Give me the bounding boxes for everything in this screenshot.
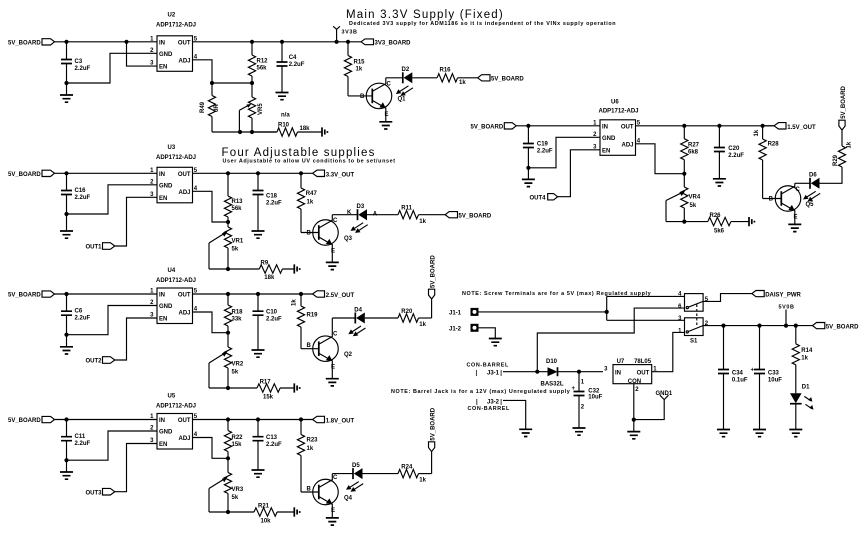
svg-text:0.1uF: 0.1uF [732,378,748,384]
svg-text:1k: 1k [459,80,466,86]
wire EN pin3 of U4 to OUT2 [115,318,157,360]
svg-text:1k: 1k [307,200,314,206]
svg-text:D3: D3 [357,204,365,210]
svg-text:R21: R21 [258,503,270,509]
svg-text:C19: C19 [537,142,549,148]
wire base Q4 [301,491,319,493]
svg-text:OUT4: OUT4 [530,196,547,202]
resistor R24 1k [398,465,432,484]
svg-text:R12: R12 [257,59,269,65]
svg-text:R47: R47 [306,191,318,197]
svg-text:IN: IN [159,40,165,46]
ground right of R9 [294,264,299,273]
svg-text:IN: IN [615,371,621,377]
svg-text:18k: 18k [264,275,275,281]
capacitor C3 2.2uF [61,42,91,83]
resistor R28 1k [754,126,779,199]
resistor R13 56k [224,173,243,222]
resistor R21 10k [228,503,294,524]
svg-text:R49: R49 [200,101,206,113]
port 5V_BOARD (vertical tag sec5) [839,85,847,130]
svg-text:2.2uF: 2.2uF [75,316,91,322]
svg-text:VR1: VR1 [232,239,244,245]
svg-text:C10: C10 [266,310,278,316]
node junction R14 [794,324,798,328]
potentiometer VR2 5k [209,333,244,388]
port OUT4 (tag) [530,194,558,202]
svg-text:1.5V_OUT: 1.5V_OUT [787,125,816,131]
capacitor C11 2.2uF [61,420,91,461]
op-amp U6 ADP1712-ADJ regulator [593,100,641,156]
svg-text:B: B [769,197,774,203]
node junction R18/VR2 [226,331,230,335]
svg-text:R11: R11 [401,206,412,212]
connector J1-2 [449,324,479,333]
node junction VR4 bottom [682,220,686,224]
svg-text:Q3: Q3 [344,236,353,242]
capacitor C10 2.2uF [253,294,283,350]
svg-text:R13: R13 [232,199,244,205]
capacitor C32 10uF polarized [572,372,603,428]
svg-text:Main 3.3V Supply (Fixed): Main 3.3V Supply (Fixed) [346,9,504,21]
ground under J1-2 [489,339,502,346]
node junction J1-1/switch riser [605,310,609,314]
svg-text:B: B [360,94,365,100]
svg-text:0R: 0R [214,104,220,112]
resistor R29 1k [833,130,853,167]
svg-text:OUT: OUT [178,40,191,46]
transistor Q2 [307,318,353,379]
svg-text:6k8: 6k8 [688,150,699,156]
capacitor C19 2.2uF [523,126,553,168]
node junction R18 top [226,292,230,296]
svg-text:5V_BOARD: 5V_BOARD [826,324,859,330]
svg-text:5V_BOARD: 5V_BOARD [8,293,41,299]
node junction VR1 bottom [226,267,230,271]
node junction C6 top [64,292,68,296]
ground under Q5 [788,224,801,231]
svg-text:B: B [307,343,312,349]
svg-text:J3-1: J3-1 [487,371,500,377]
svg-text:CON: CON [628,379,641,385]
port 5V_BOARD (input tag sec5) [471,123,517,131]
wire 5V rail sec3 [55,293,158,295]
svg-text:U2: U2 [168,13,176,19]
wire base Q5 [763,198,782,200]
svg-text:D4: D4 [354,307,362,313]
svg-text:2.2uF: 2.2uF [266,201,282,207]
node junction R12 top [250,40,254,44]
svg-text:R24: R24 [401,465,413,471]
svg-text:R18: R18 [232,310,244,316]
wire collector Q4 to D5 [332,473,353,475]
node junction C16 top [64,171,68,175]
wire ADJ pin4 of U2 [193,60,253,83]
resistor R11 1k [398,206,445,225]
svg-text:E: E [331,508,335,514]
svg-text:C34: C34 [732,371,744,377]
wire OUT rail of U6 [636,125,775,127]
wire D6 to R29 [820,167,843,183]
resistor R26 5k6 [708,213,749,234]
svg-text:1k: 1k [356,67,363,73]
ground under C18 [252,231,265,238]
svg-text:User Adjustable to allow UV co: User Adjustable to allow UV conditions t… [223,159,396,165]
node junction C3 bottom [64,81,68,85]
svg-text:D6: D6 [809,173,817,179]
node junction R27/VR4 [682,172,686,176]
svg-text:5V_BOARD: 5V_BOARD [491,77,524,83]
resistor R15 1k [344,42,365,96]
wire 5V rail sec4 [55,419,158,421]
diode D6 (LED) [803,173,820,202]
svg-text:3V3_BOARD: 3V3_BOARD [375,41,412,47]
resistor R17 15k [228,379,294,400]
port 5V_BOARD (input tag sec2) [8,170,55,178]
svg-text:C16: C16 [75,188,87,194]
svg-text:1.8V_OUT: 1.8V_OUT [326,419,355,425]
ground right of R26 [749,217,754,226]
svg-text:R14: R14 [801,348,813,354]
wire VR1 to R9 [209,268,228,270]
svg-text:5V_BOARD: 5V_BOARD [841,85,847,118]
node junction C19 top [526,124,530,128]
svg-text:10k: 10k [261,518,272,524]
svg-text:ADP1712-ADJ: ADP1712-ADJ [156,278,196,284]
svg-text:U3: U3 [168,145,176,151]
wire U7 OUT to switch pin1 [652,332,685,371]
svg-text:2.2uF: 2.2uF [289,62,305,68]
resistor R18 33k [224,294,243,333]
svg-text:GND: GND [159,183,173,189]
svg-text:5V_BOARD: 5V_BOARD [8,40,41,46]
svg-text:E: E [385,112,389,118]
svg-text:R20: R20 [401,309,413,315]
svg-text:J1-2: J1-2 [449,326,462,332]
wire J3-1 to D10 [503,371,548,373]
svg-text:U7: U7 [617,359,625,365]
svg-text:2.2uF: 2.2uF [75,66,91,72]
node junction R13/VR1 [226,220,230,224]
svg-text:3V3B: 3V3B [342,29,358,35]
wire GND pin2 of U3 [68,185,157,214]
node junction 3.3V_OUT [299,171,303,175]
port 5V_BOARD (vertical tag sec4) [429,407,437,473]
svg-text:VR3: VR3 [232,487,244,493]
wire collector Q2 to D4 [332,317,355,319]
wire base Q2 [301,348,319,350]
node junction C32 top [577,370,581,374]
svg-text:OUT: OUT [621,124,634,130]
svg-text:OUT1: OUT1 [86,245,103,251]
svg-text:3.3V_OUT: 3.3V_OUT [326,172,355,178]
port 3V3_BOARD (output tag) [361,39,411,47]
wire EN pin3 of U3 to OUT1 [115,197,157,246]
svg-text:D10: D10 [546,359,558,365]
svg-text:B: B [307,487,312,493]
svg-text:56k: 56k [232,206,243,212]
ground under Q2 [326,379,339,386]
ground under C34 [717,430,730,437]
potentiometer VR1 5k [209,222,244,269]
diode D4 (LED) [348,307,365,336]
capacitor C33 10uF polarized [751,326,783,430]
capacitor C34 0.1uF [718,326,748,430]
node junction R15 top [346,40,350,44]
svg-text:2.2uF: 2.2uF [728,153,744,159]
resistor R23 1k [297,420,318,493]
wire ADJ pin4 of U4 [193,312,229,333]
svg-text:C3: C3 [75,59,83,65]
ground under C4 [276,93,289,100]
svg-text:CON-BARREL: CON-BARREL [468,406,511,412]
svg-text:R26: R26 [710,213,722,219]
svg-text:1k: 1k [754,129,760,136]
node junction C18 top [256,171,260,175]
connector label CON-BARREL J3-2 [468,399,511,412]
svg-text:U5: U5 [168,394,176,400]
diode D5 (LED) [346,463,363,492]
svg-text:VR5: VR5 [258,103,264,115]
node junction C3 [64,40,68,44]
ground right of R10 [322,127,327,136]
svg-text:Four Adjustable supplies: Four Adjustable supplies [222,147,376,159]
svg-text:R23: R23 [307,438,319,444]
svg-text:2.2uF: 2.2uF [266,317,282,323]
svg-text:ADP1712-ADJ: ADP1712-ADJ [156,404,196,410]
svg-text:GND: GND [602,136,616,142]
svg-text:GND: GND [159,430,173,436]
svg-text:OUT2: OUT2 [86,359,103,365]
svg-text:5V_BOARD: 5V_BOARD [471,124,504,130]
svg-text:C33: C33 [768,371,780,377]
svg-text:R9: R9 [261,260,269,266]
svg-text:R29: R29 [833,154,839,166]
node junction 2.5V_OUT [299,292,303,296]
svg-text:DAISY_PWR: DAISY_PWR [765,292,801,298]
svg-text:5V_BOARD: 5V_BOARD [431,407,437,440]
wire D3 to R11 [367,214,398,216]
svg-text:EN: EN [159,317,167,323]
svg-text:C: C [333,218,338,224]
node junction C34 [721,324,725,328]
svg-text:1k: 1k [419,322,426,328]
node junction VR5 bottom [250,130,254,134]
ground right of R21 [294,507,299,516]
svg-text:n/a: n/a [281,113,290,119]
diode D3 (LED) [351,204,378,233]
connector J1-1 [449,308,479,317]
wire collector Q3 to D3 [332,214,357,216]
wire pin5 to DAISY_PWR [703,294,752,302]
wire GND pin2 of U4 [68,306,157,335]
wire 5V rail sec5 [516,125,600,127]
svg-text:R16: R16 [440,67,452,73]
resistor R22 15k [224,420,243,459]
dashed link between switch sections [696,305,698,328]
port 5V_BOARD (input tag) [8,39,55,47]
transistor Q1 [360,78,406,122]
svg-text:1k: 1k [292,299,298,306]
net label 5V0B [779,305,795,326]
svg-text:E: E [331,365,335,371]
resistor R19 1k [292,294,319,349]
op-amp U3 ADP1712-ADJ regulator [150,145,198,203]
regulator U7 78L05 [604,359,657,393]
port 1.5V_OUT (tag) [763,123,816,131]
ground right of R17 [294,383,299,392]
wire D4 to R20 [365,317,398,319]
svg-text:C: C [333,475,338,481]
svg-text:1k: 1k [419,219,426,225]
port 3.3V_OUT (tag) [301,170,354,178]
svg-text:OUT3: OUT3 [86,490,103,496]
ground under J3-2 [519,429,532,436]
svg-text:2.2uF: 2.2uF [75,195,91,201]
resistor R47 1k [297,173,317,232]
port 2.5V_OUT (tag) [301,291,354,299]
wire D2 to R16 [412,77,437,79]
svg-text:Q5: Q5 [806,202,815,208]
svg-text:1k: 1k [801,355,808,361]
svg-text:C: C [387,81,392,87]
svg-text:5k: 5k [232,247,239,253]
node junction R22/VR3 [226,456,230,460]
svg-text:ADJ: ADJ [621,142,633,148]
capacitor C6 2.2uF [61,294,91,335]
wire VR2 to R17 [209,387,228,389]
wire ADJ pin4 of U3 [193,191,229,222]
svg-text:2.2uF: 2.2uF [75,441,91,447]
node junction VR5 wiper [238,130,242,134]
wire VR3 to R21 [209,511,228,513]
node junction R49 top [210,81,214,85]
ground under C13 [252,470,265,477]
diode D1 (LED down) [790,384,814,429]
resistor R20 1k [398,309,432,328]
ground under U7 [627,432,640,439]
resistor R10 18k [252,123,322,137]
svg-text:15k: 15k [232,442,243,448]
svg-text:C: C [333,332,338,338]
svg-text:R22: R22 [232,435,244,441]
resistor R9 18k [228,260,294,281]
svg-text:C13: C13 [266,435,278,441]
svg-text:5V0B: 5V0B [779,305,795,311]
svg-text:Dedicated 3V3 supply for ADM11: Dedicated 3V3 supply for ADM1186 so it i… [349,21,616,27]
svg-text:ADJ: ADJ [178,311,190,317]
svg-text:D1: D1 [802,384,810,390]
potentiometer VR4 5k [666,174,701,222]
svg-text:5V_BOARD: 5V_BOARD [8,172,41,178]
svg-text:ADJ: ADJ [178,190,190,196]
port 5V_BOARD (right tag sec1) [478,75,525,83]
ground under C10 [252,350,265,357]
wire EN pin3 of U2 [127,43,158,66]
wire 5V rail sec2 [55,172,158,174]
svg-text:5k: 5k [690,203,697,209]
svg-text:VR2: VR2 [232,362,244,368]
wire base Q3 [301,232,319,234]
svg-text:BAS32L: BAS32L [541,382,564,388]
diode D10 BAS32L [541,359,564,388]
svg-text:5V_BOARD: 5V_BOARD [8,418,41,424]
svg-text:2.2uF: 2.2uF [266,442,282,448]
svg-text:5k6: 5k6 [714,228,725,234]
wire OUT rail of U5 [193,419,302,421]
node junction 5V0B stub [784,324,788,328]
svg-text:ADP1712-ADJ: ADP1712-ADJ [156,155,196,161]
wire collector Q5 to D6 [795,182,810,184]
capacitor C16 2.2uF [61,173,91,214]
node junction C11 top [64,417,68,421]
wire ADJ pin4 of U6 [636,144,685,174]
node junction C16 bottom [64,212,68,216]
svg-text:2.2uF: 2.2uF [537,149,553,155]
node junction CON ground [632,418,636,422]
node junction C19 bottom [526,166,530,170]
wire bottom rail sec1 [212,131,276,133]
wire GND pin2 of U5 [68,431,157,460]
ground under D1 [789,430,802,437]
svg-text:R15: R15 [354,60,366,66]
svg-text:1k: 1k [847,141,853,148]
svg-text:1k: 1k [307,446,314,452]
ground under C20 [713,179,726,186]
svg-text:D5: D5 [352,463,360,469]
wire OUT rail of U3 [193,172,302,174]
ground under C3 [60,83,73,102]
svg-text:K: K [347,210,352,216]
ground under C19 [522,168,535,187]
svg-text:J3-2: J3-2 [487,399,500,405]
wire GND pin2 of U2 [68,53,157,83]
wire 5V rail [55,41,158,43]
svg-text:C6: C6 [75,309,83,315]
switch S1 bottom section [678,316,709,345]
svg-text:18k: 18k [300,126,311,132]
svg-text:5k: 5k [232,495,239,501]
wire ADJ pin4 of U5 [193,438,229,459]
node junction R13 top [226,171,230,175]
svg-text:E: E [331,249,335,255]
ground under Q3 [326,262,339,269]
resistor R27 6k8 [681,126,700,174]
node junction C20 top [717,124,721,128]
svg-text:C4: C4 [289,55,297,61]
svg-text:J1-1: J1-1 [449,311,462,317]
svg-text:B: B [307,231,312,237]
node junction 3V3B [335,40,339,44]
node junction EN riser [124,40,128,44]
wire riser to pins 4 and 3 [607,296,685,320]
port OUT1 (tag) [86,243,115,251]
svg-text:56k: 56k [257,66,268,72]
svg-text:Q4: Q4 [344,496,353,502]
svg-text:OUT: OUT [178,172,191,178]
svg-text:10uF: 10uF [588,394,602,400]
resistor R16 1k [437,67,478,86]
svg-text:15k: 15k [263,394,274,400]
ground under C16 [60,214,73,238]
node junction 1.5V_OUT [761,124,765,128]
svg-text:GND: GND [159,304,173,310]
svg-text:Q1: Q1 [398,97,407,103]
port 5V_BOARD (vertical tag sec3) [429,255,437,318]
ground under C11 [60,460,73,479]
svg-text:ADP1712-ADJ: ADP1712-ADJ [599,109,639,115]
node junction C10 top [256,292,260,296]
